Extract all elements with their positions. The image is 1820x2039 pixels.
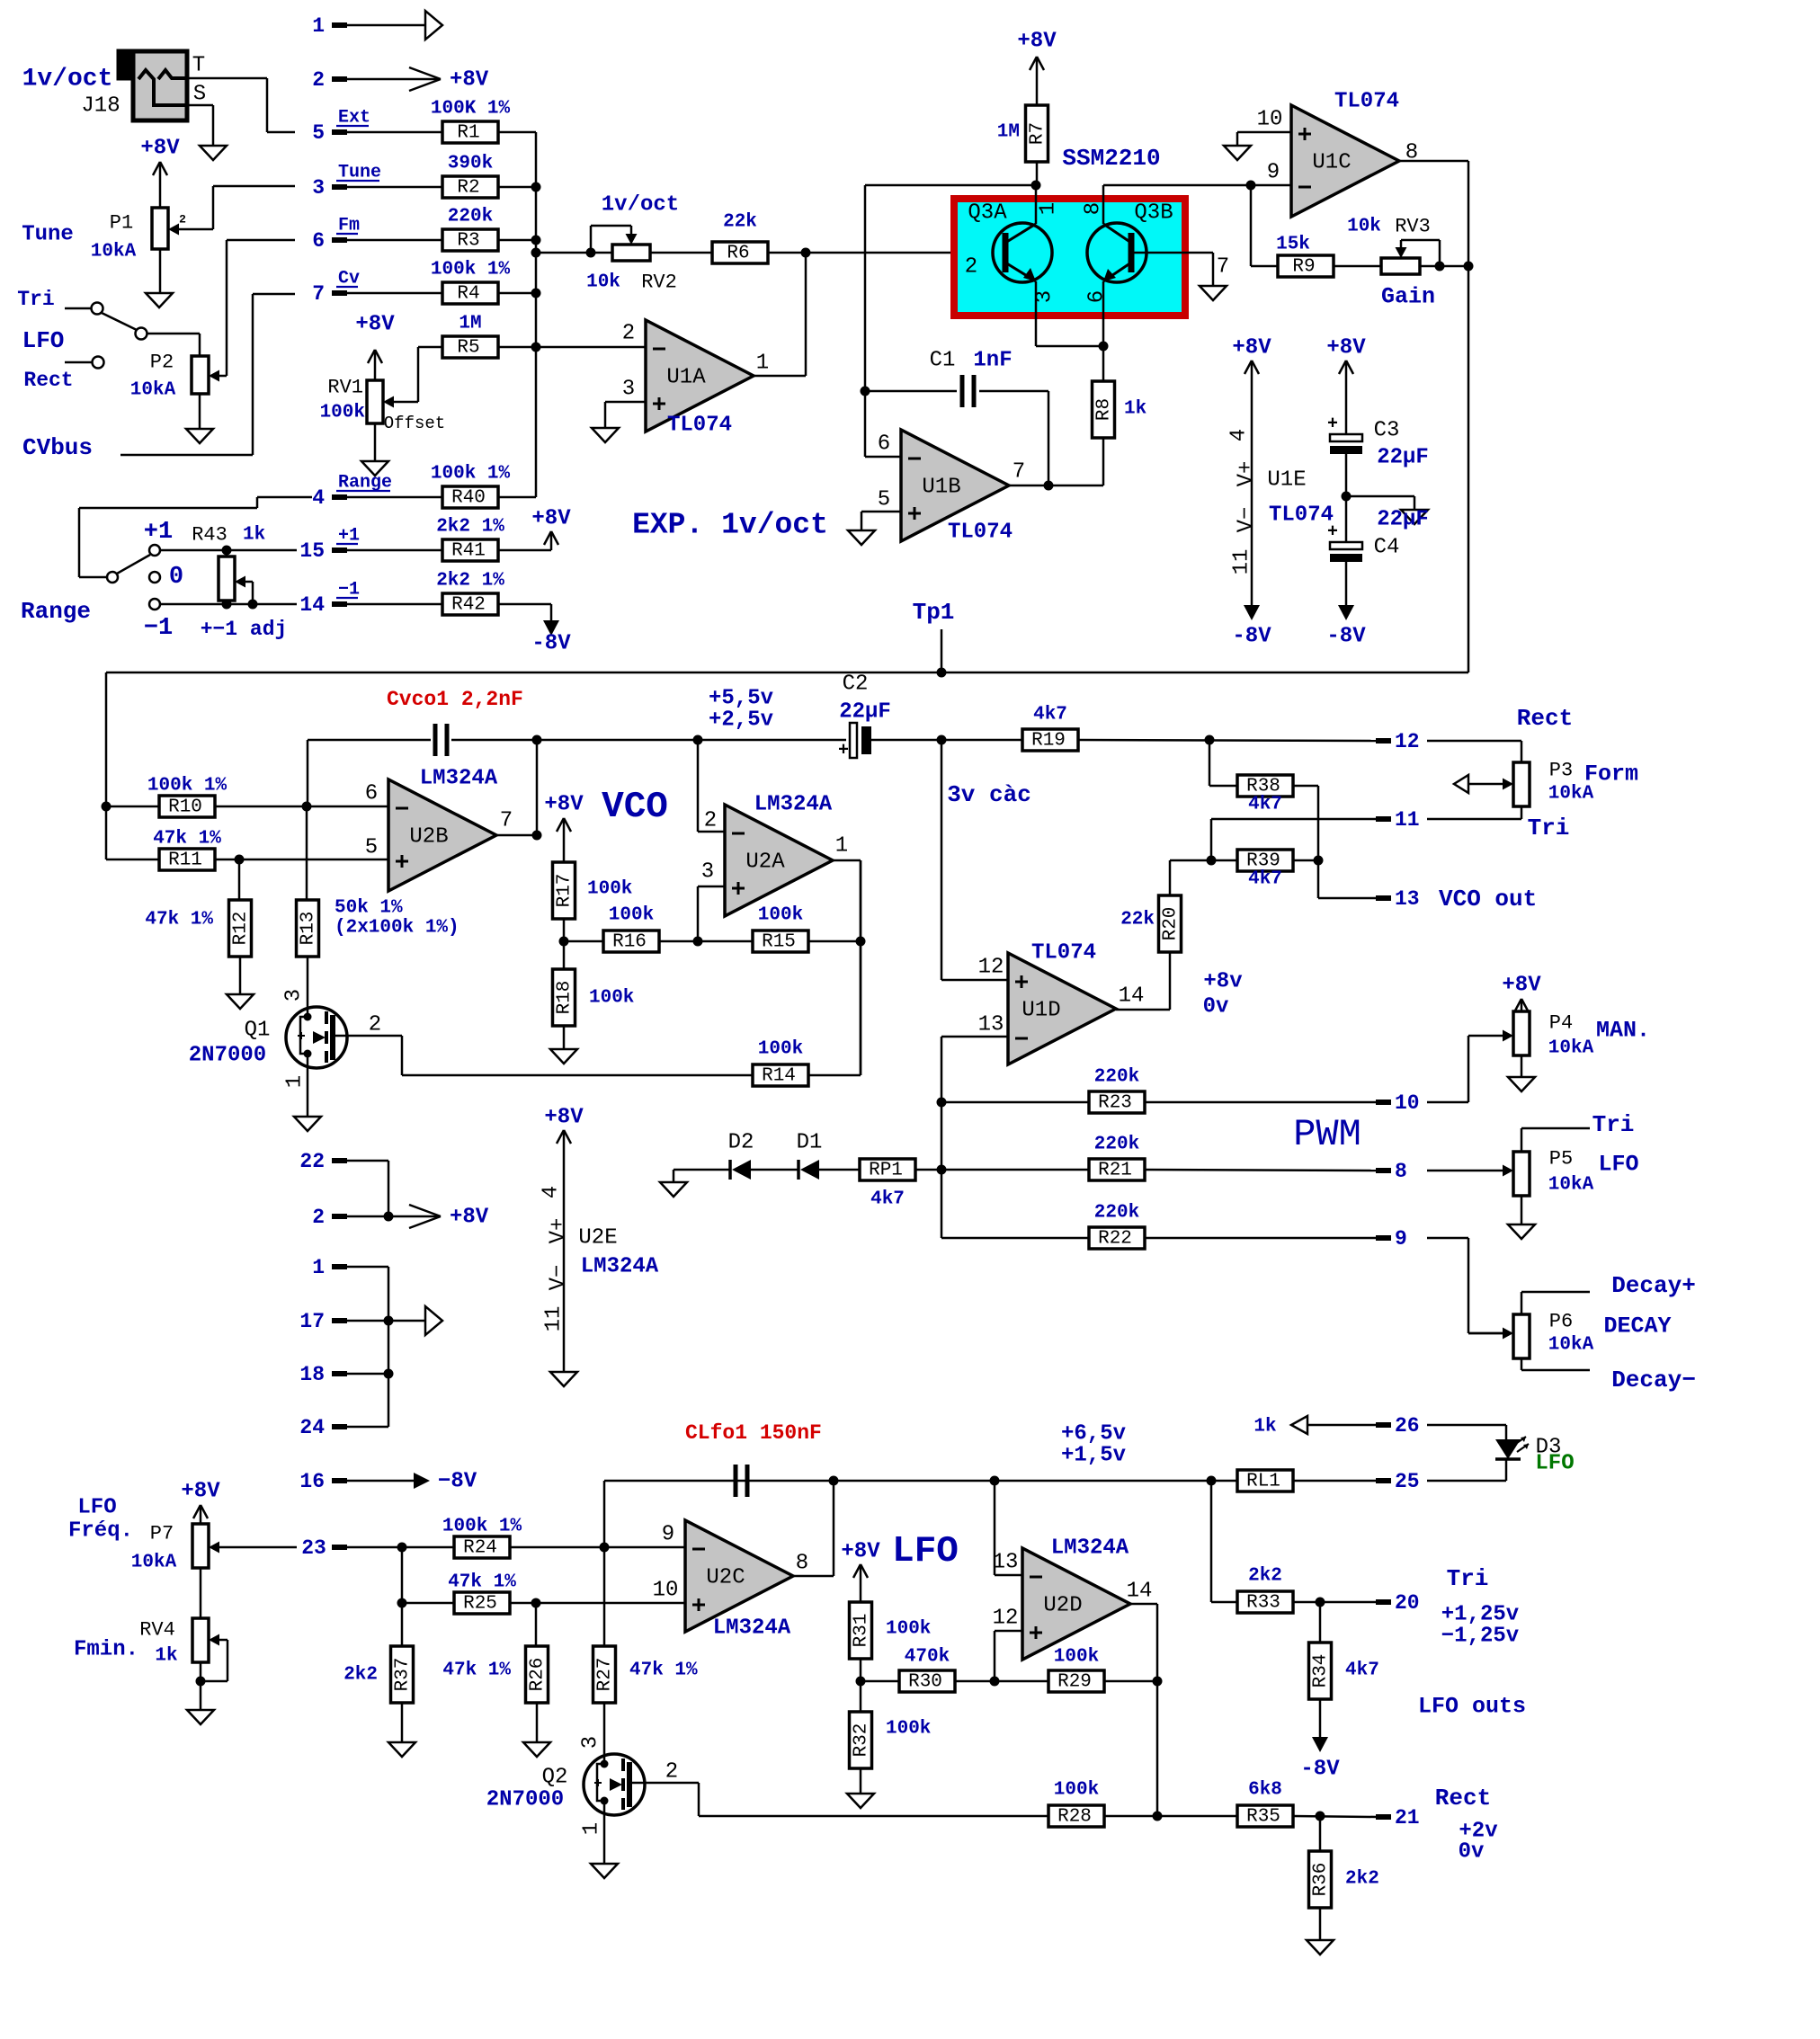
-8V supply R42 — [531, 620, 571, 656]
svg-text:LM324A: LM324A — [581, 1255, 659, 1279]
wire Q3A emitter — [1036, 281, 1103, 346]
junction R43 wiper — [248, 600, 258, 610]
wire R9 to RV3 — [1334, 265, 1381, 268]
svg-text:1k: 1k — [1124, 399, 1146, 420]
svg-text:+8V: +8V — [841, 1540, 880, 1564]
wire P1 wiper to pin 3 — [179, 186, 295, 229]
svg-text:+1,5v: +1,5v — [1061, 1444, 1126, 1468]
junction R26 top — [531, 1598, 541, 1608]
wire pin9 to P6 — [1427, 1238, 1503, 1333]
svg-text:100k: 100k — [886, 1619, 931, 1640]
junction bus R5 — [531, 343, 541, 352]
wire rail to R11 — [106, 859, 159, 861]
svg-text:2N7000: 2N7000 — [486, 1788, 564, 1812]
svg-text:RV4: RV4 — [139, 1619, 175, 1642]
resistor R24 — [442, 1517, 522, 1559]
svg-text:10kA: 10kA — [1548, 1335, 1594, 1356]
svg-text:2: 2 — [622, 322, 635, 346]
label LFO big — [892, 1531, 959, 1572]
label CLfo1 — [685, 1421, 822, 1445]
wire R33 to pin20 — [1293, 1601, 1376, 1604]
svg-text:2: 2 — [665, 1760, 678, 1785]
wire RL1 to pin25 — [1293, 1480, 1376, 1483]
open arrow pin 17 — [425, 1306, 442, 1335]
wiper P5 — [1427, 1165, 1513, 1177]
resistor R27 — [593, 1646, 699, 1703]
svg-text:VCO: VCO — [602, 787, 668, 828]
svg-text:D2: D2 — [728, 1131, 754, 1155]
wire C3 to ground node — [1345, 454, 1348, 543]
wire +8V to RV1 — [374, 351, 377, 380]
label LFO outs — [1418, 1694, 1526, 1720]
svg-text:6: 6 — [312, 229, 325, 253]
svg-text:1v/oct: 1v/oct — [602, 193, 679, 218]
svg-text:47k 1%: 47k 1% — [442, 1661, 511, 1681]
svg-text:+1,25v: +1,25v — [1441, 1603, 1519, 1627]
svg-text:Gain: Gain — [1381, 284, 1435, 310]
svg-text:R28: R28 — [1057, 1807, 1092, 1828]
svg-text:1M: 1M — [997, 122, 1020, 143]
capacitor Cvco1 — [435, 724, 447, 756]
ground P5 — [1508, 1224, 1535, 1239]
ground Q1 — [294, 1117, 321, 1131]
trimmer RV4 Fmin — [74, 1618, 219, 1667]
wire R43 wiper to pin14 — [245, 582, 253, 604]
svg-text:DECAY: DECAY — [1603, 1313, 1671, 1340]
wire Tri to P5 top — [1521, 1128, 1590, 1152]
label CVbus — [22, 434, 93, 461]
-8V supply R34 — [1300, 1737, 1340, 1782]
svg-text:3: 3 — [312, 176, 325, 200]
label -1 — [144, 615, 173, 642]
wire R26 top — [535, 1603, 538, 1646]
svg-text:1: 1 — [283, 1075, 308, 1088]
junction U1D pin12 branch — [937, 735, 947, 745]
op-amp U1A — [622, 320, 769, 438]
junction U2C out rail — [829, 1476, 839, 1486]
resistor R40 — [431, 464, 511, 509]
svg-text:U1A: U1A — [666, 366, 706, 390]
wire R3 to bus — [498, 239, 536, 242]
junction R29 right — [1153, 1677, 1163, 1687]
svg-text:Rect: Rect — [1517, 705, 1573, 732]
connector pin 8 — [1376, 1160, 1407, 1183]
svg-text:1k: 1k — [155, 1646, 177, 1667]
svg-text:3: 3 — [701, 860, 714, 885]
wire P3 bottom to pin11 — [1427, 806, 1521, 819]
wire R18 to ground — [563, 1026, 566, 1049]
resistor R26 — [442, 1646, 548, 1703]
svg-text:0v: 0v — [1459, 1840, 1485, 1865]
svg-text:R37: R37 — [393, 1658, 414, 1692]
-8V supply U1E — [1232, 605, 1271, 649]
svg-text:22µF: 22µF — [839, 700, 891, 725]
svg-text:R17: R17 — [555, 874, 575, 908]
svg-text:100k: 100k — [320, 403, 365, 423]
wire +8V to P4 — [1521, 1000, 1523, 1011]
svg-text:U1B: U1B — [922, 476, 960, 500]
svg-text:R32: R32 — [852, 1723, 872, 1758]
diode D2 — [728, 1131, 754, 1180]
wire Q2 drain to R28 — [629, 1783, 1048, 1816]
wire +1 throw to pin15 — [160, 549, 297, 552]
label U1D out levels — [1203, 970, 1243, 1019]
wire R43 bottom — [226, 601, 228, 604]
svg-text:24: 24 — [299, 1416, 325, 1439]
op-amp U1B — [878, 430, 1025, 545]
svg-text:R24: R24 — [463, 1538, 497, 1559]
transistor Q3B — [1082, 201, 1230, 304]
svg-text:U2A: U2A — [745, 850, 785, 875]
connector pin 6 — [312, 216, 360, 254]
junction R9 branch — [1246, 181, 1256, 191]
svg-text:Rect: Rect — [1435, 1785, 1491, 1812]
wire pin16 — [347, 1480, 414, 1483]
wire integrator feedback line — [307, 740, 309, 806]
resistor R5 — [442, 314, 498, 359]
svg-text:15k: 15k — [1276, 235, 1310, 255]
svg-text:EXP. 1v/oct: EXP. 1v/oct — [632, 509, 828, 542]
svg-text:C2: C2 — [843, 672, 869, 697]
label C1 — [930, 349, 1013, 373]
wire Q1 source to ground — [307, 1054, 309, 1117]
svg-text:R35: R35 — [1246, 1807, 1280, 1828]
svg-text:2k2 1%: 2k2 1% — [436, 571, 504, 592]
arrow pin 2 +8V — [409, 67, 489, 93]
wire R34 to -8V — [1319, 1699, 1322, 1737]
svg-text:47k 1%: 47k 1% — [145, 910, 213, 930]
svg-text:RV1: RV1 — [327, 377, 363, 399]
op-amp U2C — [653, 1520, 809, 1641]
power pins U2E — [540, 1186, 659, 1332]
wire R39 right seg — [1293, 859, 1318, 862]
wire RV4 wiper bypass — [201, 1640, 227, 1681]
svg-text:Q3B: Q3B — [1134, 201, 1173, 226]
resistor R28 — [1048, 1780, 1104, 1828]
svg-text:1: 1 — [312, 1256, 325, 1279]
connector pin 26 — [1376, 1414, 1420, 1438]
resistor R2 — [442, 154, 498, 199]
svg-text:R25: R25 — [463, 1594, 497, 1615]
svg-text:R23: R23 — [1098, 1093, 1132, 1114]
potentiometer P6 DECAY — [1513, 1311, 1672, 1359]
svg-text:R13: R13 — [299, 912, 319, 946]
junction RV3 right — [1464, 262, 1474, 272]
svg-text:7: 7 — [312, 282, 325, 306]
wire Q3B emitter — [1102, 281, 1105, 346]
svg-text:2: 2 — [704, 809, 717, 833]
wire C1 left — [865, 390, 957, 393]
potentiometer P3 Form — [1513, 760, 1638, 807]
wire R41 to +8V — [498, 532, 551, 550]
junction pin17 — [384, 1316, 394, 1326]
svg-text:100k: 100k — [589, 988, 634, 1009]
test point Tp1 — [913, 599, 955, 672]
wire pin2 to +8V arrow — [347, 1215, 439, 1218]
connector pin 10 — [1376, 1091, 1420, 1115]
svg-text:Range: Range — [21, 598, 91, 625]
svg-text:4: 4 — [312, 486, 325, 510]
wire U1C pin10 to ground — [1237, 132, 1291, 146]
svg-text:-8V: -8V — [1232, 625, 1271, 649]
svg-text:2N7000: 2N7000 — [189, 1044, 266, 1068]
svg-text:22k: 22k — [1120, 910, 1155, 930]
wire R13 to Q1 gate — [307, 957, 309, 1017]
junction R24 left — [397, 1543, 407, 1553]
wire R16 to R15 — [659, 940, 753, 943]
potentiometer P2 — [130, 352, 219, 401]
svg-text:R10: R10 — [168, 797, 202, 818]
svg-text:6k8: 6k8 — [1248, 1780, 1282, 1801]
wire pin6 to R3 — [347, 239, 442, 242]
svg-text:R9: R9 — [1292, 257, 1315, 278]
svg-text:12: 12 — [993, 1607, 1019, 1631]
wire R25 to U2C pin10 — [510, 1602, 685, 1605]
svg-text:1v/oct: 1v/oct — [22, 66, 113, 93]
ground U2E — [550, 1372, 577, 1386]
svg-text:R27: R27 — [595, 1658, 616, 1692]
connector pin 4 — [312, 473, 392, 511]
svg-text:Decay−: Decay− — [1611, 1367, 1696, 1393]
wire R4 to bus — [498, 292, 536, 295]
resistor R42 — [436, 571, 504, 616]
SSM2210 highlight box — [954, 199, 1185, 316]
svg-text:−1,25v: −1,25v — [1441, 1625, 1519, 1649]
junction R43 bottom — [222, 600, 232, 610]
svg-text:LFO: LFO — [1598, 1152, 1638, 1178]
svg-text:+8V: +8V — [1326, 336, 1366, 361]
svg-text:220k: 220k — [1094, 1135, 1139, 1155]
wire R11 to U2B pin5 — [215, 859, 388, 861]
svg-text:11: 11 — [1230, 549, 1254, 575]
ground U1B pin5 — [848, 530, 875, 545]
svg-text:LM324A: LM324A — [754, 793, 833, 817]
svg-text:R15: R15 — [762, 932, 796, 953]
svg-text:15: 15 — [299, 539, 325, 563]
label PWM — [1293, 1113, 1361, 1156]
svg-text:100k: 100k — [758, 905, 803, 926]
resistor RL1 — [1237, 1417, 1293, 1492]
svg-text:R19: R19 — [1031, 731, 1066, 752]
svg-text:5: 5 — [365, 836, 378, 860]
svg-text:RP1: RP1 — [869, 1161, 903, 1181]
svg-text:470k: 470k — [905, 1647, 950, 1668]
svg-text:8: 8 — [796, 1552, 808, 1576]
svg-text:3v càc: 3v càc — [947, 781, 1031, 808]
junction R27 top — [600, 1543, 610, 1553]
junction Tp1 — [937, 668, 947, 678]
wire jack tip to pin 5 — [187, 78, 295, 132]
wire R19 to pin12 — [1078, 740, 1376, 741]
wire RV2 bypass — [591, 226, 631, 253]
svg-text:V−: V− — [1235, 507, 1259, 533]
capacitor C4 — [1327, 508, 1429, 563]
svg-text:7: 7 — [1013, 460, 1025, 485]
svg-text:1k: 1k — [243, 525, 265, 546]
svg-text:P3: P3 — [1549, 760, 1573, 782]
connector pin 7 — [312, 269, 360, 307]
junction R6 node — [801, 248, 811, 258]
svg-text:U2E: U2E — [578, 1226, 617, 1251]
svg-text:Tri: Tri — [1592, 1111, 1635, 1138]
svg-text:+8V: +8V — [1232, 336, 1271, 361]
wire R25 left seg — [402, 1602, 454, 1605]
connector pin 13 — [1376, 887, 1420, 911]
wire pin1 lower — [347, 1267, 388, 1427]
wire U2C out — [793, 1481, 834, 1576]
svg-text:+: + — [1327, 414, 1338, 435]
junction bus R3 — [531, 236, 541, 245]
wire P1 bottom to ground — [159, 249, 162, 293]
svg-text:22: 22 — [299, 1150, 325, 1173]
wire R6 to Q3A base — [768, 252, 1005, 254]
wire R20 to R39 node — [1170, 859, 1211, 862]
svg-text:2: 2 — [312, 1206, 325, 1229]
svg-text:R14: R14 — [762, 1066, 796, 1087]
svg-text:100K 1%: 100K 1% — [431, 99, 511, 120]
junction R12 top — [235, 855, 245, 865]
wire R20 top — [1169, 860, 1172, 895]
svg-text:7: 7 — [1217, 255, 1229, 280]
svg-text:LM324A: LM324A — [420, 767, 498, 791]
wire D2 to D1 — [751, 1169, 798, 1171]
wire R12 to ground — [239, 957, 242, 994]
svg-text:+2,5v: +2,5v — [709, 708, 773, 733]
wire pin 2 to +8V — [347, 78, 439, 81]
wire R7 to Q3A collector node — [1036, 162, 1039, 185]
svg-text:2: 2 — [965, 255, 977, 280]
wire U2B out — [496, 740, 537, 835]
svg-text:100k: 100k — [609, 905, 654, 926]
wire +8V to R17 — [563, 819, 566, 862]
junction bus R2 — [531, 183, 541, 192]
ground R26 — [523, 1742, 550, 1757]
resistor R13 — [297, 900, 319, 957]
junction emitters — [1099, 342, 1109, 352]
switch range throws — [107, 545, 160, 610]
svg-text:+1: +1 — [144, 519, 173, 546]
resistor R8 — [1093, 381, 1147, 438]
label Cvco1 — [387, 688, 523, 711]
wire R31 to R32 — [860, 1659, 862, 1712]
wire Q2 source to ground — [603, 1801, 606, 1864]
svg-text:+: + — [1327, 522, 1338, 543]
svg-text:+8V: +8V — [140, 137, 180, 161]
connector pin 5 — [312, 108, 370, 146]
resistor R21 — [1089, 1135, 1145, 1181]
wire R27 top seg — [603, 1547, 606, 1646]
wire P4 bottom to ground — [1521, 1055, 1523, 1077]
svg-text:10: 10 — [1257, 108, 1283, 132]
svg-text:13: 13 — [993, 1551, 1019, 1575]
resistor R18 — [553, 969, 635, 1026]
resistor R41 — [436, 517, 504, 562]
wire RV3 right — [1420, 265, 1468, 268]
ground R32 — [847, 1794, 874, 1808]
svg-text:R30: R30 — [908, 1672, 942, 1693]
svg-text:R40: R40 — [451, 488, 486, 509]
svg-text:LM324A: LM324A — [1051, 1536, 1129, 1561]
open arrow pin 1 — [425, 11, 442, 40]
wire Decay+ to P6 top — [1521, 1292, 1590, 1314]
svg-text:4k7: 4k7 — [1248, 795, 1282, 815]
svg-text:P1: P1 — [110, 212, 133, 235]
resistor R6 — [712, 212, 768, 264]
svg-text:U2C: U2C — [706, 1566, 745, 1590]
svg-text:2k2: 2k2 — [343, 1665, 378, 1686]
label R13 value — [335, 898, 459, 939]
label SSM2210 — [1062, 145, 1160, 172]
connector pin 12 — [1376, 730, 1420, 753]
ground RV1 — [361, 461, 388, 476]
wire EXP output line — [106, 672, 1468, 859]
+8V supply U1E — [1232, 336, 1271, 375]
svg-text:+8V: +8V — [531, 507, 571, 531]
connector pin 2 power — [312, 1206, 347, 1229]
svg-text:Decay+: Decay+ — [1611, 1272, 1696, 1299]
junction rail R33 — [1207, 1476, 1217, 1486]
svg-text:+8V: +8V — [355, 313, 395, 337]
resistor R23 — [1089, 1067, 1145, 1114]
label +1 — [144, 519, 173, 546]
svg-text:R31: R31 — [852, 1614, 872, 1648]
svg-text:1: 1 — [835, 834, 848, 859]
svg-text:6: 6 — [878, 432, 890, 457]
svg-text:1: 1 — [580, 1822, 604, 1835]
ground R36 — [1307, 1940, 1334, 1954]
potentiometer P5 LFO — [1513, 1148, 1639, 1197]
ground P1 — [146, 293, 173, 307]
svg-text:R43: R43 — [192, 524, 227, 547]
label 0 — [169, 564, 183, 591]
svg-text:TL074: TL074 — [1031, 941, 1096, 966]
label LFO switch — [22, 327, 65, 354]
svg-text:1: 1 — [1037, 202, 1061, 215]
connector pin 24 — [299, 1416, 347, 1439]
wire summing bus — [535, 132, 538, 497]
resistor R7 — [997, 105, 1048, 162]
svg-text:+8V: +8V — [1502, 974, 1541, 998]
wire R30 to R29 — [955, 1680, 1048, 1683]
wire node to U1B pin6 — [865, 185, 901, 457]
svg-text:(2x100k 1%): (2x100k 1%) — [335, 918, 459, 939]
wire pin11 left — [1211, 818, 1376, 821]
svg-text:14: 14 — [1119, 984, 1145, 1009]
wire pin22 — [347, 1161, 388, 1216]
trimmer RV3 Gain — [1347, 216, 1435, 310]
wire R15 right — [808, 940, 861, 943]
wire R38 left — [1209, 740, 1237, 786]
wire +8V to R31 — [860, 1565, 862, 1602]
junction R34 top — [1316, 1598, 1325, 1607]
wire U1B out — [1009, 485, 1048, 487]
junction R30 R29 — [990, 1677, 1000, 1687]
potentiometer P4 MAN — [1513, 1011, 1650, 1059]
svg-text:390k: 390k — [448, 154, 493, 174]
wire U1D pin13 — [941, 1037, 1008, 1238]
svg-text:2k2: 2k2 — [1248, 1566, 1282, 1587]
svg-text:R4: R4 — [457, 284, 479, 305]
wire D1 to RP1 — [819, 1169, 860, 1171]
svg-text:RV2: RV2 — [641, 272, 677, 294]
wire rail left down — [603, 1481, 606, 1547]
wire bus to RV2 — [536, 252, 612, 254]
svg-text:R16: R16 — [612, 932, 647, 953]
svg-text:1: 1 — [756, 352, 769, 376]
svg-text:Q2: Q2 — [542, 1766, 568, 1790]
wire +8V to C3 — [1345, 361, 1348, 434]
wire R39 left — [1211, 819, 1237, 860]
